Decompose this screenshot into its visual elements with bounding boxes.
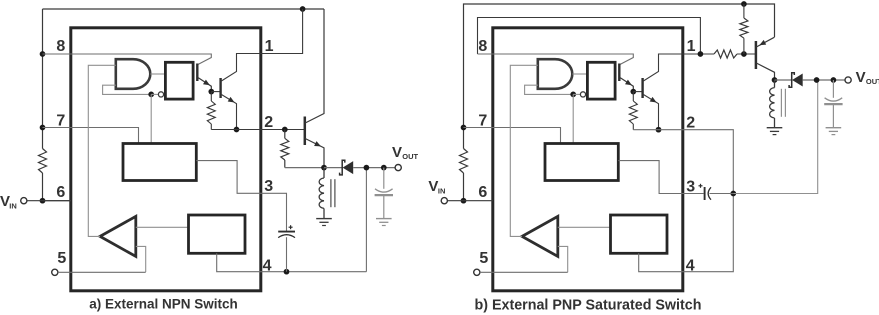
node: fig b VOUT sense junction bbox=[814, 77, 820, 83]
gate: AND gate (fig a) bbox=[116, 59, 151, 89]
svg-text:5: 5 bbox=[479, 250, 488, 267]
resistor: fig a base pulldown resistor bbox=[281, 130, 289, 168]
resistor: internal base resistor (fig b) bbox=[629, 92, 637, 130]
transistor: external NPN base bar (fig a) bbox=[304, 117, 307, 146]
figure a: IC box (thick outline) bbox=[71, 28, 261, 291]
block: driver box (fig a) bbox=[165, 62, 193, 99]
figure b: IC box (thick outline) bbox=[493, 28, 683, 291]
ground: fig b output cap ground bbox=[826, 128, 842, 135]
ground: fig a output cap ground bbox=[376, 219, 392, 226]
svg-text:V: V bbox=[392, 144, 402, 161]
transistor: external NPN collector bbox=[305, 9, 324, 123]
wire: pulldown resistor to emitter node bbox=[285, 167, 324, 169]
pin 4 label (fig b) bbox=[686, 258, 695, 275]
resistor: fig b base series resistor bbox=[714, 50, 737, 58]
svg-text:OUT: OUT bbox=[402, 152, 418, 161]
svg-text:6: 6 bbox=[478, 184, 487, 201]
wire: Q1 emitter node to Q2 base bbox=[211, 91, 220, 93]
label: VOUT (fig a) bbox=[392, 144, 419, 161]
svg-text:4: 4 bbox=[686, 258, 695, 275]
wire: AND output to driver bbox=[150, 73, 165, 75]
bubble: inverting input of driver bbox=[158, 92, 163, 97]
node: fig b VIN node bbox=[461, 198, 467, 204]
svg-text:6: 6 bbox=[56, 184, 65, 201]
node: fig b pin 1 junction bbox=[698, 51, 704, 57]
pin 1 label (fig a) bbox=[265, 38, 274, 55]
resistor: fig b VIN divider resistor bbox=[460, 149, 468, 174]
terminal: fig b VIN terminal bbox=[441, 198, 447, 204]
svg-text:3: 3 bbox=[686, 179, 695, 196]
node: fig a switch/emitter node bbox=[321, 165, 327, 171]
node: fig b pin2/3/4 feedback junction bbox=[730, 191, 736, 197]
svg-text:2: 2 bbox=[686, 115, 695, 132]
wire: fig a pin 8 to internal Q1 collector bbox=[43, 54, 212, 65]
wire: junction to inverter bubble bbox=[151, 93, 158, 95]
block: logic block (fig a) bbox=[189, 215, 246, 253]
label: VIN (fig b) bbox=[428, 178, 445, 195]
terminal: fig a pin 5 terminal bbox=[52, 269, 58, 275]
node: fig a external base resistor tap bbox=[282, 127, 288, 133]
bubble: inverting input of driver (fig b) bbox=[580, 92, 585, 97]
node: fig b switch/collector node bbox=[772, 77, 778, 83]
pin 3 label (fig b) bbox=[686, 179, 695, 196]
transistor: external NPN emitter bbox=[305, 139, 324, 168]
wire: AND lower input feedback loop (fig b) bbox=[525, 85, 574, 94]
svg-text:IN: IN bbox=[438, 187, 446, 196]
ground: fig a inductor ground bbox=[316, 219, 332, 226]
wire: series resistor to PNP base bbox=[737, 53, 756, 55]
wire: fig a left VIN vertical (lower) bbox=[42, 173, 44, 201]
transistor Q4 collector to pin 1 bbox=[643, 54, 701, 82]
wire: fig a pin 5 wire bbox=[58, 271, 146, 273]
wire: fig a left VIN vertical (upper) bbox=[42, 9, 44, 149]
node: fig a pin 7 tap on VIN rail bbox=[40, 125, 46, 131]
diode: fig a Schottky catch diode bbox=[340, 160, 354, 175]
amplifier: comparator triangle (fig a) bbox=[100, 216, 136, 256]
wire: fig b pin 1 wire bbox=[659, 53, 715, 55]
ground: fig b inductor ground bbox=[767, 128, 783, 135]
wire: comparator output up to AND input bbox=[88, 65, 116, 236]
wire: comparator lower input to pin 5 bbox=[136, 246, 146, 272]
svg-text:3: 3 bbox=[264, 178, 273, 195]
wire: fig b pin 5 wire bbox=[480, 271, 568, 273]
block: control block (fig b) bbox=[545, 144, 618, 181]
node: fig b pin 7 tap bbox=[461, 125, 467, 131]
caption: a) External NPN Switch bbox=[89, 297, 238, 312]
pin 5 label (fig a) bbox=[57, 250, 66, 267]
caption: b) External PNP Saturated Switch bbox=[475, 298, 702, 314]
node: fig a output cap junction bbox=[381, 165, 387, 171]
label: VIN (fig a) bbox=[0, 193, 17, 211]
wire: emitter node to diode bbox=[324, 167, 342, 169]
wire: collector node to diode (fig b) bbox=[775, 79, 792, 81]
wire: comparator output up to AND input (fig b) bbox=[510, 65, 538, 236]
terminal: fig a VOUT terminal bbox=[395, 165, 401, 171]
wire: control block to pin 3 (fig b) bbox=[618, 161, 703, 194]
transistor: external PNP emitter bbox=[756, 37, 774, 47]
pin 4 label (fig a) bbox=[263, 258, 272, 275]
transistor Q2 collector to pin 1 bbox=[221, 9, 303, 82]
wire: fig a pin 4 riser to VOUT bbox=[365, 168, 367, 272]
label: plus sign of fig b feedback cap bbox=[699, 184, 703, 188]
svg-text:a) External NPN Switch: a) External NPN Switch bbox=[89, 297, 238, 312]
resistor: internal base resistor (fig a) bbox=[207, 92, 215, 130]
wire: logic block to comparator input bbox=[136, 226, 189, 228]
wire: fig b pin 8 to internal Q1 collector bbox=[478, 54, 634, 65]
label: plus sign of fig a feedback cap bbox=[289, 225, 293, 229]
wire: fig b pin 7 to control block bbox=[464, 128, 561, 144]
wire: logic block to comparator input (fig b) bbox=[558, 226, 611, 228]
capacitor: fig a feedback capacitor (polarized) bbox=[278, 193, 295, 271]
block: control block (fig a) bbox=[123, 144, 196, 181]
svg-text:8: 8 bbox=[478, 38, 487, 55]
transistor Q2 (internal NPN) base bar bbox=[219, 78, 221, 98]
gate: AND gate (fig b) bbox=[538, 59, 573, 89]
pin 3 label (fig a) bbox=[264, 178, 273, 195]
pin 8 label (fig a) bbox=[56, 38, 65, 55]
node: fig a top rail junction to pin 1 bbox=[300, 6, 306, 12]
wire: diode to VOUT terminal (fig b) bbox=[803, 79, 845, 81]
node: Q1 emitter / Q2 base junction bbox=[208, 89, 214, 95]
pin 2 label (fig a) bbox=[264, 114, 273, 131]
node: fig b output cap junction bbox=[831, 77, 837, 83]
core bars of fig b inductor bbox=[781, 89, 785, 117]
svg-text:1: 1 bbox=[687, 38, 696, 55]
transistor Q3 (internal NPN, fig b) base bar bbox=[618, 64, 620, 82]
terminal: fig b pin 5 terminal bbox=[474, 269, 480, 275]
pin 7 label (fig a) bbox=[56, 113, 65, 130]
pin 7 label (fig b) bbox=[478, 113, 487, 130]
capacitor: fig b output capacitor bbox=[824, 80, 842, 128]
svg-text:b) External PNP Saturated Swit: b) External PNP Saturated Switch bbox=[475, 298, 702, 314]
wire: AND lower input feedback loop bbox=[103, 85, 152, 94]
node: feedback junction under AND gate (fig b) bbox=[570, 92, 576, 98]
wire: junction to inverter bubble (fig b) bbox=[573, 93, 580, 95]
transistor Q2 emitter bbox=[221, 94, 237, 130]
inductor: fig a output inductor bbox=[319, 168, 324, 219]
node: fig a VIN input node bbox=[40, 198, 46, 204]
node: fig a VOUT sense junction bbox=[364, 165, 370, 171]
svg-text:8: 8 bbox=[56, 38, 65, 55]
pin 2 label (fig b) bbox=[686, 115, 695, 132]
svg-text:2: 2 bbox=[264, 114, 273, 131]
wire: fig b pin 2 wire to feedback node bbox=[633, 130, 733, 194]
svg-text:V: V bbox=[856, 69, 866, 86]
wire: fig a top VIN rail bbox=[43, 8, 325, 10]
svg-text:5: 5 bbox=[57, 250, 66, 267]
transistor Q4 (internal NPN, fig b) base bar bbox=[641, 78, 643, 98]
resistor: fig a VIN divider resistor bbox=[39, 149, 47, 174]
diode: fig b Schottky catch diode bbox=[789, 73, 803, 88]
transistor Q3 emitter bbox=[620, 78, 633, 92]
capacitor: fig a output capacitor bbox=[375, 168, 393, 219]
wire: comparator lower input to pin 5 (fig b) bbox=[558, 246, 568, 272]
wire: fig b outer VIN rail bbox=[464, 4, 775, 201]
resistor: fig b pull-up resistor bbox=[740, 4, 748, 54]
pin 8 label (fig b) bbox=[478, 38, 487, 55]
node: Q4 emitter on pin 2 wire bbox=[656, 127, 662, 133]
wire: AND output to driver (fig b) bbox=[572, 73, 587, 75]
wire: fig a pin 6 stub bbox=[43, 200, 71, 202]
wire: diode to VOUT terminal bbox=[353, 167, 395, 169]
transistor Q4 emitter bbox=[643, 94, 659, 130]
node: Q2 emitter on pin 2 wire bbox=[234, 127, 240, 133]
transistor: external PNP base bar bbox=[755, 41, 758, 69]
transistor: external PNP collector bbox=[756, 63, 774, 80]
node: fig a pin 4 / feedback cap junction bbox=[284, 269, 290, 275]
pin 5 label (fig b) bbox=[479, 250, 488, 267]
svg-text:OUT: OUT bbox=[866, 77, 879, 86]
inductor: fig b output inductor bbox=[770, 80, 775, 128]
wire: fig a pin 7 to control block bbox=[43, 128, 139, 144]
wire: feedback junction down to control block (fig b) bbox=[572, 94, 574, 143]
pin 1 label (fig b) bbox=[687, 38, 696, 55]
svg-text:1: 1 bbox=[265, 38, 274, 55]
svg-text:IN: IN bbox=[9, 202, 16, 211]
capacitor: fig b feedback capacitor (polarized) bbox=[705, 187, 734, 200]
wire: logic block down to pin 4 (fig b) bbox=[639, 194, 734, 272]
pin 6 label (fig a) bbox=[56, 184, 65, 201]
terminal: fig b VOUT terminal bbox=[845, 77, 851, 83]
block: driver box (fig b) bbox=[587, 62, 615, 99]
wire: logic block down to pin 4 bbox=[217, 253, 367, 271]
node: Q3 emitter / Q4 base junction bbox=[630, 89, 636, 95]
wire: Q3 emitter node to Q4 base bbox=[633, 91, 642, 93]
wire: fig b inner rail pin8 to pin1 bbox=[478, 18, 701, 55]
svg-text:4: 4 bbox=[263, 258, 272, 275]
transistor Q1 (internal NPN) base bar bbox=[196, 64, 198, 82]
core bars of fig a inductor bbox=[331, 179, 335, 207]
node: fig b base/pull-up junction bbox=[741, 51, 747, 57]
node: fig a pin 8 tap on VIN rail bbox=[40, 51, 46, 57]
wire: fig a VIN to pin 6 bbox=[27, 200, 71, 202]
svg-text:7: 7 bbox=[478, 113, 487, 130]
pin 6 label (fig b) bbox=[478, 184, 487, 201]
node: feedback junction under AND gate bbox=[148, 92, 154, 98]
transistor Q1 emitter bbox=[198, 78, 211, 92]
wire: feedback junction down to control block bbox=[150, 94, 152, 143]
svg-text:7: 7 bbox=[56, 113, 65, 130]
node: fig b top rail resistor tap bbox=[741, 1, 747, 7]
wire: fig a pin 2 wire bbox=[211, 129, 304, 131]
wire: feedback junction to VOUT sense riser bbox=[733, 80, 817, 194]
wire: fig b VIN to pin 6 bbox=[448, 200, 493, 202]
terminal: fig a VIN terminal bbox=[21, 198, 27, 204]
label: VOUT (fig b) bbox=[856, 69, 879, 86]
block: logic block (fig b) bbox=[611, 215, 668, 253]
wire: control block to pin 3 bbox=[196, 161, 287, 194]
amplifier: comparator triangle (fig b) bbox=[522, 216, 558, 256]
